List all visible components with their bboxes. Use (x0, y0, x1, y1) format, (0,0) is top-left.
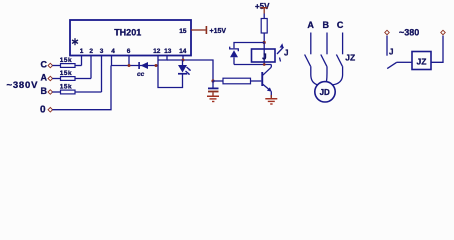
svg-text:A: A (307, 20, 314, 30)
svg-text:14: 14 (179, 48, 187, 55)
LED D2 (178, 60, 191, 75)
wire JZ to right terminal (431, 36, 443, 63)
svg-text:JD: JD (320, 88, 330, 97)
IC U1 TH201 box (70, 20, 191, 56)
terminal diamond A (48, 76, 53, 81)
motor JD (315, 82, 335, 102)
resistor R1 15k (phase C) (52, 57, 81, 68)
wire pin4 stub (111, 56, 113, 66)
contact JZ phase B (321, 33, 327, 67)
wire top rail to zener (234, 43, 264, 49)
svg-text:6: 6 (127, 48, 131, 55)
terminal diamond C (48, 63, 53, 68)
resistor R3 15k (phase B) (52, 83, 101, 94)
zener diode VZ1 (230, 47, 239, 65)
svg-text:1: 1 (80, 48, 84, 55)
relay coil J (252, 43, 276, 65)
svg-text:13: 13 (164, 48, 172, 55)
transistor Q1 (261, 65, 272, 98)
wire pin1 (81, 56, 83, 66)
terminal diamond B (48, 90, 53, 95)
svg-text:15k: 15k (60, 57, 72, 64)
svg-text:~380V: ~380V (7, 80, 39, 91)
junction coil bottom (263, 63, 266, 66)
relay contact arrow J (277, 43, 284, 61)
capacitor C1 (208, 81, 219, 92)
junction node top (263, 41, 266, 44)
diode D1 (on bus, cathode left) (138, 62, 148, 69)
svg-text:C: C (41, 59, 48, 69)
resistor R5 (relay feed) (261, 14, 267, 43)
svg-text:JZ: JZ (345, 53, 355, 63)
resistor R4 (base) (213, 78, 261, 84)
asterisk mark (72, 38, 78, 45)
svg-text:J: J (389, 47, 393, 56)
terminal left ~380 (385, 30, 390, 35)
terminal +15V bar (206, 26, 208, 34)
wire pin12 down and loop (158, 56, 183, 88)
svg-text:15: 15 (179, 28, 187, 35)
svg-text:+15V: +15V (210, 28, 227, 35)
svg-text:3: 3 (100, 48, 104, 55)
svg-text:2: 2 (89, 48, 93, 55)
wire converge B (326, 66, 329, 81)
svg-text:4: 4 (111, 48, 115, 55)
junction pin14-rail (182, 59, 185, 62)
svg-text:0: 0 (40, 104, 46, 115)
svg-text:15k: 15k (60, 70, 72, 77)
svg-text:J: J (284, 48, 288, 57)
svg-text:A: A (41, 72, 48, 82)
svg-text:B: B (41, 86, 48, 96)
wire rail pins13-14 (158, 56, 167, 61)
svg-text:12: 12 (153, 48, 161, 55)
wire pin3 (101, 56, 103, 93)
wire pin2 (90, 56, 92, 79)
svg-text:B: B (322, 20, 329, 30)
svg-text:cc: cc (137, 71, 145, 78)
contact J right (387, 36, 397, 69)
ground (capacitor) (207, 92, 219, 102)
svg-text:15k: 15k (60, 83, 72, 90)
contact JZ phase C (336, 33, 342, 67)
wire 0 line to pin4 (52, 66, 111, 110)
junction base node (211, 79, 214, 82)
resistor R2 15k (phase A) (52, 70, 91, 81)
svg-text:J: J (262, 52, 266, 61)
wire to JZ coil (397, 61, 413, 63)
wire +15V pin (191, 29, 206, 31)
wire converge C (332, 66, 342, 85)
terminal diamond 0 (48, 107, 53, 112)
svg-text:TH201: TH201 (114, 28, 141, 38)
junction pin6 (128, 64, 131, 67)
contactor coil JZ (412, 52, 431, 70)
ground (emitter) (265, 95, 277, 105)
junction bus-pin12 (155, 64, 158, 67)
svg-text:+5V: +5V (255, 2, 270, 11)
contact JZ phase A (305, 33, 311, 67)
wire bottom rail (234, 64, 271, 66)
wire converge A (311, 66, 318, 85)
svg-text:C: C (337, 20, 344, 30)
terminal right ~380 (441, 30, 446, 35)
terminal +5V (261, 7, 268, 14)
wire pin6 stub (128, 56, 130, 66)
wire pin14 stub (182, 56, 184, 61)
wire bus pins 4-6-12 (111, 65, 158, 67)
svg-text:~380: ~380 (399, 28, 419, 38)
svg-text:JZ: JZ (417, 56, 427, 66)
